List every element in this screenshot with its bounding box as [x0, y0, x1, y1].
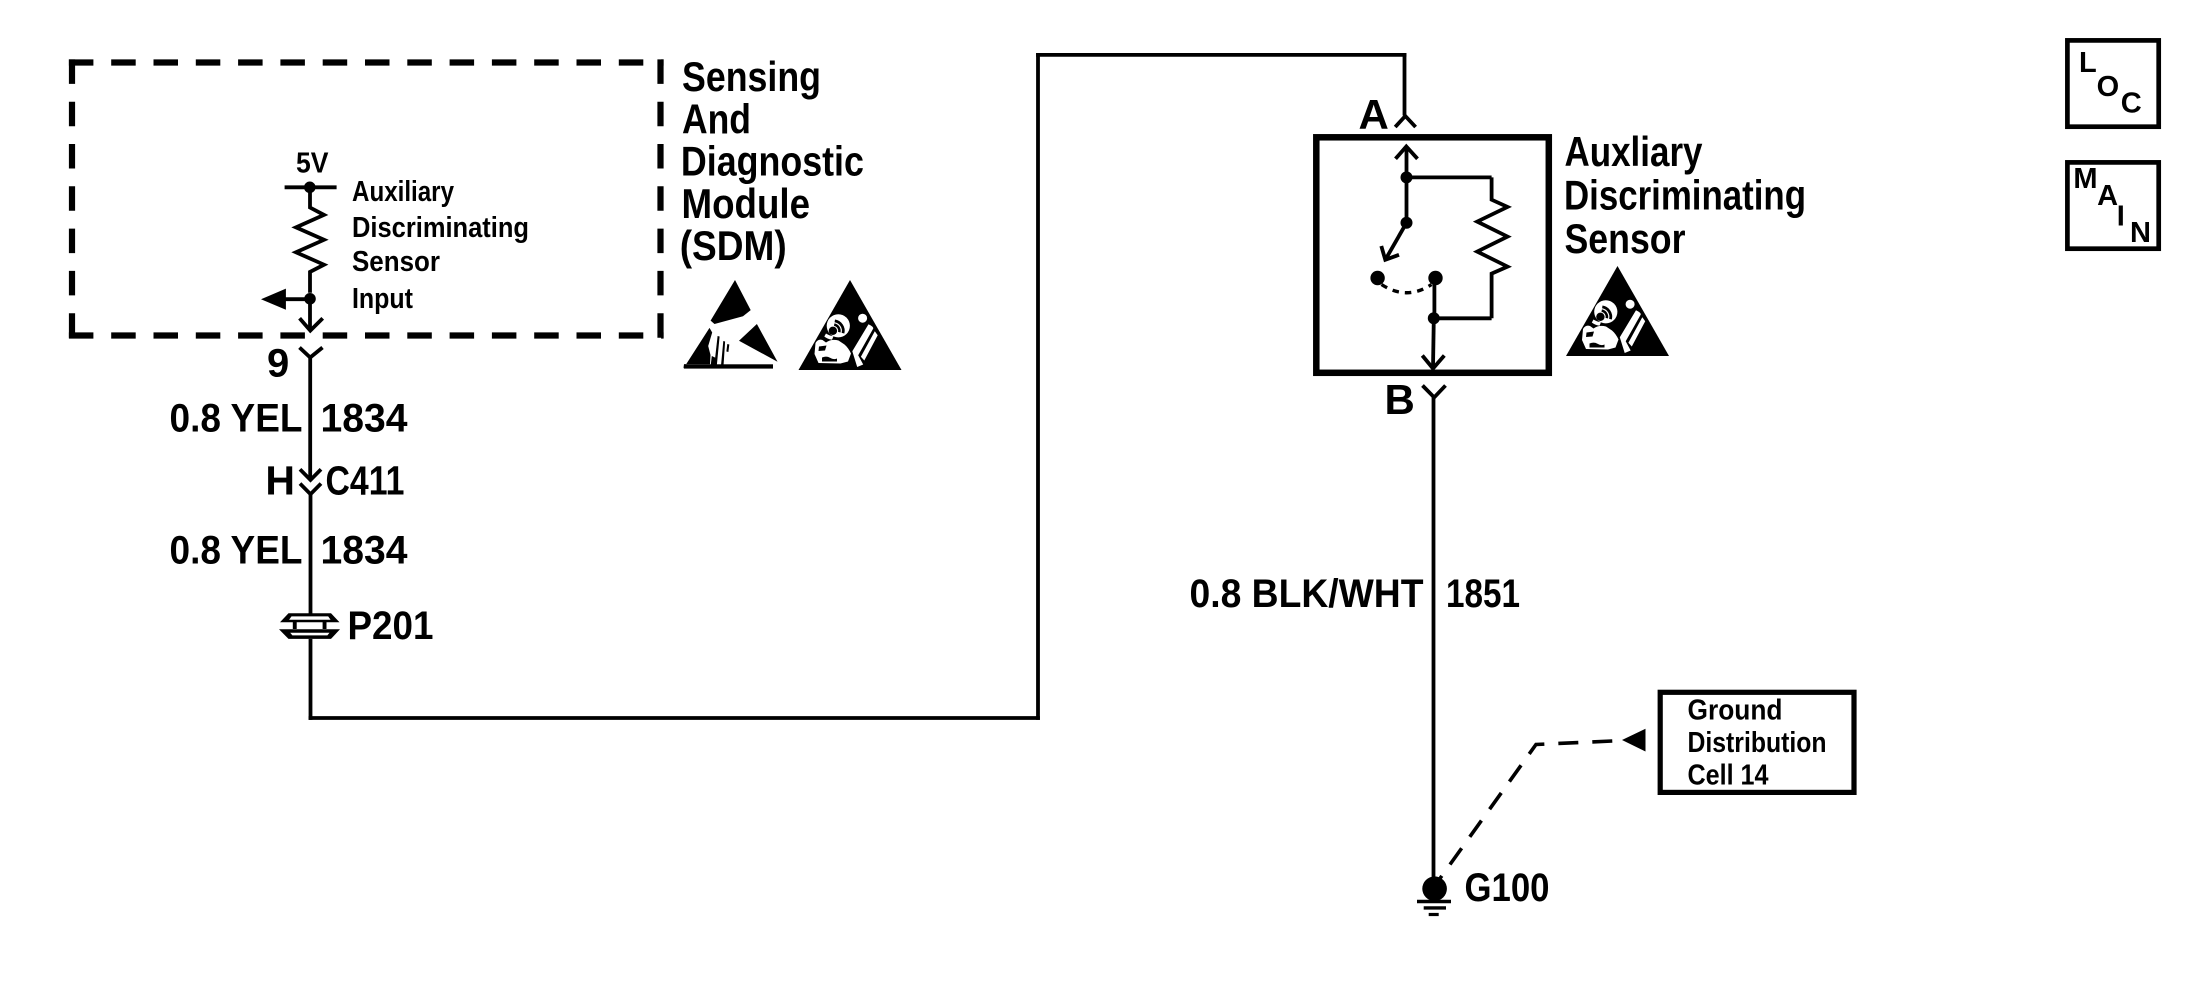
pin A connector prongs	[1395, 116, 1415, 127]
wire segment: bottom horizontal run	[309, 716, 1040, 720]
in-line connector C411 (male chevron)	[300, 469, 321, 480]
svg-text:N: N	[2130, 217, 2151, 249]
svg-text:5V: 5V	[296, 147, 329, 179]
svg-text:B: B	[1385, 376, 1415, 423]
ESD warning triangle	[683, 280, 777, 369]
svg-text:H: H	[265, 458, 295, 504]
in-line connector C411 (female chevron)	[300, 484, 321, 495]
wire segment: left riser up	[1036, 53, 1040, 720]
svg-text:9: 9	[267, 341, 289, 385]
leader arrowhead (solid, pointing left)	[1622, 729, 1646, 752]
LOC reference box	[2067, 40, 2158, 126]
sensor internal resistor	[1477, 177, 1507, 318]
junction dot (sensor top)	[1401, 171, 1413, 183]
wire label 0.8 YEL 1834 (lower)	[170, 529, 409, 573]
wire segment: P201 down to bottom run	[309, 639, 313, 720]
svg-text:0.8 BLK/WHT: 0.8 BLK/WHT	[1190, 572, 1424, 616]
pin B female connector Y	[1423, 386, 1446, 398]
junction dot (sensor bottom)	[1428, 312, 1440, 324]
svg-text:M: M	[2073, 163, 2097, 195]
SDM output junction dot	[304, 293, 316, 305]
5V supply rail wire	[285, 185, 337, 189]
svg-text:O: O	[2097, 71, 2120, 103]
sensor label: Auxliary Discriminating Sensor	[1564, 128, 1806, 262]
sensor pin B internal arrow (down)	[1422, 318, 1444, 368]
reference box label: Ground Distribution Cell 14	[1688, 695, 1827, 792]
MAIN box letters	[2073, 163, 2151, 249]
svg-text:1834: 1834	[321, 529, 409, 573]
SDM label: Sensing And Diagnostic Module (SDM)	[680, 53, 864, 269]
wire label 0.8 YEL 1834 (upper)	[170, 397, 409, 441]
SDM sensor-input arrow (solid, pointing left)	[261, 289, 310, 310]
wire: top dot to resistor	[1407, 175, 1492, 179]
Ground Distribution Cell 14 reference box	[1660, 692, 1854, 792]
svg-text:0.8 YEL: 0.8 YEL	[170, 529, 303, 573]
junction dot at 5V rail	[304, 182, 316, 194]
switch arm with arrowhead	[1381, 223, 1406, 260]
svg-text:And: And	[682, 95, 751, 142]
wire segment: drop to sensor pin A	[1403, 53, 1407, 116]
svg-text:Sensing: Sensing	[682, 53, 821, 100]
svg-text:Auxliary: Auxliary	[1565, 128, 1704, 175]
switch pivot dot	[1401, 217, 1413, 229]
svg-text:P201: P201	[348, 604, 434, 648]
svg-text:1851: 1851	[1446, 572, 1520, 616]
svg-text:1834: 1834	[321, 397, 409, 441]
wire 0.8 BLK/WHT 1851 (pin B to ground)	[1432, 397, 1436, 884]
svg-text:Input: Input	[352, 283, 413, 315]
SDM internal label: Auxiliary Discriminating Sensor Input	[352, 176, 529, 315]
sensor pin A internal arrow (up)	[1396, 147, 1418, 178]
airbag warning triangle (SDM)	[799, 280, 902, 370]
LOC box letters	[2079, 47, 2142, 120]
SDM internal resistor	[296, 187, 324, 292]
switch travel dashed arc	[1382, 285, 1432, 293]
wire: bottom junction to resistor	[1434, 316, 1492, 320]
switch throw dot (to pin B)	[1428, 271, 1442, 285]
svg-text:Module: Module	[682, 180, 811, 227]
SDM module dashed outline box	[69, 59, 664, 338]
svg-text:C411: C411	[326, 458, 405, 504]
svg-text:Distribution: Distribution	[1688, 727, 1827, 759]
svg-text:A: A	[2097, 180, 2118, 212]
dashed leader line to ground distribution	[1436, 741, 1623, 885]
svg-text:A: A	[1359, 91, 1389, 138]
svg-text:Cell 14: Cell 14	[1688, 760, 1769, 792]
svg-text:Discriminating: Discriminating	[352, 212, 529, 244]
wire: throw contact down to junction	[1433, 278, 1437, 318]
svg-text:L: L	[2079, 47, 2097, 79]
svg-text:0.8 YEL: 0.8 YEL	[170, 397, 303, 441]
SDM pin output arrow (open, pointing down)	[300, 299, 323, 331]
airbag warning triangle (sensor)	[1566, 266, 1669, 356]
svg-text:Sensor: Sensor	[1565, 215, 1686, 262]
wire label 0.8 BLK/WHT 1851	[1190, 572, 1521, 616]
wire segment: top horizontal run	[1036, 53, 1406, 57]
svg-text:(SDM): (SDM)	[680, 222, 787, 269]
grommet pass-through P201	[279, 613, 340, 639]
svg-text:Sensor: Sensor	[352, 246, 440, 278]
Auxliary Discriminating Sensor box	[1316, 137, 1549, 372]
svg-text:Discriminating: Discriminating	[1564, 172, 1806, 219]
svg-text:G100: G100	[1465, 866, 1550, 910]
MAIN reference box	[2067, 162, 2158, 248]
svg-text:Auxiliary: Auxiliary	[352, 176, 454, 208]
pin 9 female connector Y	[300, 348, 323, 358]
svg-text:C: C	[2121, 88, 2142, 120]
wire: top dot to switch pivot	[1405, 177, 1409, 222]
svg-text:Diagnostic: Diagnostic	[681, 138, 864, 185]
wire 0.8 YEL 1834 (upper segment)	[308, 357, 312, 480]
wire 0.8 YEL 1834 (lower segment)	[309, 494, 313, 613]
svg-text:Ground: Ground	[1688, 695, 1783, 727]
switch contact dot (pole)	[1370, 271, 1384, 285]
ground symbol G100	[1417, 876, 1451, 914]
svg-text:I: I	[2117, 201, 2125, 233]
